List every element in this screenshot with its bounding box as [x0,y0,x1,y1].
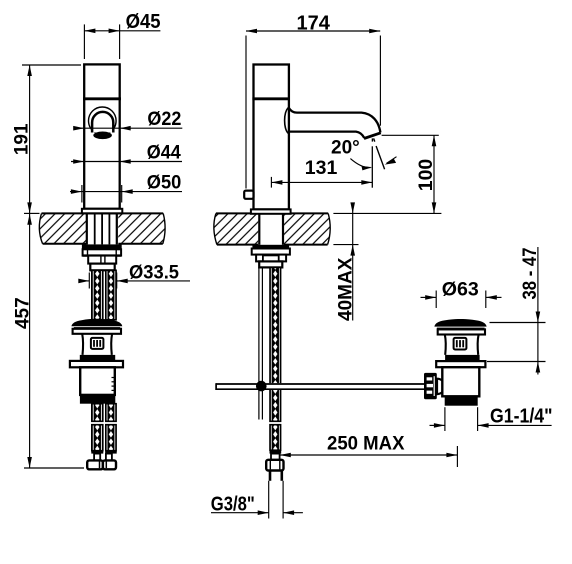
tail body [80,367,115,395]
neck [82,334,112,355]
handle underside ellipse [93,132,112,140]
svg-text:G1-1/4": G1-1/4" [490,406,553,428]
pivot dome [437,379,445,394]
svg-text:Ø22: Ø22 [147,109,181,130]
svg-text:Ø50: Ø50 [147,173,182,194]
dimension 174 [246,12,380,188]
countertop right slab [214,213,330,244]
plug dome [434,319,486,327]
rim [73,329,121,334]
dimension Ø44 [71,143,182,164]
dimension G3/8" [211,481,303,519]
handle lever arch [92,112,113,133]
svg-text:40MAX: 40MAX [335,257,356,321]
ball joint [256,381,267,392]
svg-text:457: 457 [12,297,33,329]
flange (side view) [251,209,291,213]
bottom black band [445,396,478,405]
outer arrow at spray ray [387,157,397,164]
svg-text:100: 100 [415,159,437,192]
tail body [442,367,479,396]
base flange (left view) [82,209,122,214]
svg-text:Ø33.5: Ø33.5 [129,263,179,284]
spout root arc [285,108,289,134]
svg-text:131: 131 [305,157,338,179]
pop-up knob [244,191,253,199]
dimension Ø50 [70,173,182,203]
mounting locknut stack (front) [82,244,122,270]
washer flange [436,361,485,367]
cap joint line [83,97,121,100]
svg-text:G3/8": G3/8" [211,493,255,515]
dimension Ø33.5 [78,263,190,289]
dimension 40MAX [333,202,358,321]
shank through counter (side) [259,214,283,245]
svg-text:20°: 20° [331,138,360,159]
svg-text:Ø63: Ø63 [442,279,479,301]
angle arc with arrow [350,159,370,168]
mounting stack (side) [252,245,290,268]
svg-text:38 - 47: 38 - 47 [520,248,541,300]
svg-text:250 MAX: 250 MAX [327,433,405,455]
dimension 131 [271,157,372,188]
hoses (front) middle segment [92,404,116,422]
overflow window [91,338,104,349]
20 degree spray ray stub and main [374,138,375,141]
dimension G1-1/4" [430,406,553,431]
svg-text:Ø45: Ø45 [126,11,161,33]
dimension 250 MAX [280,433,458,467]
vertical reference ray stub and main [371,138,373,141]
faucet body side [252,65,290,210]
knurled pivot barrel [424,373,437,399]
dimension 38 - 47 [487,247,546,375]
spout [285,108,381,139]
svg-text:174: 174 [297,12,331,34]
pop-up waste (side view) [424,319,487,406]
clamp black band [445,355,480,361]
overflow window [454,338,467,350]
washer flange [70,361,123,367]
hose end nuts (front) [87,460,116,469]
dimension Ø63 [421,279,502,308]
clamp black band [80,355,115,361]
hoses (front) lower segment [92,425,116,451]
plug dome [71,319,122,326]
hose (side) upper segment [270,267,281,421]
pop-up rod vertical [259,267,263,419]
flexible hoses (front) upper segment [92,270,116,320]
hose (side) lower segment [270,425,281,451]
pop-up waste (front view) [70,319,123,404]
svg-text:191: 191 [12,123,33,155]
dimension 100 [382,135,439,213]
hose end collars and ferrules (front) [91,451,116,461]
shank through counter (front) [87,213,117,244]
extension line counter top (shared by 100 and 40MAX) [333,212,441,214]
dimension Ø22 [73,109,182,130]
rim [438,329,485,334]
horizontal actuating rod [216,383,424,390]
hose end (side) [266,450,283,481]
angle 20 annotation [331,138,397,188]
faucet body front [83,64,121,208]
bottom black band [80,395,115,404]
svg-text:Ø44: Ø44 [147,143,181,164]
dimension 191 [12,65,81,213]
dimension Ø45 [84,11,160,59]
handle ring (back disc) [89,107,117,135]
dimension 457 [12,214,84,468]
neck [445,335,479,355]
countertop left slab [39,213,165,243]
